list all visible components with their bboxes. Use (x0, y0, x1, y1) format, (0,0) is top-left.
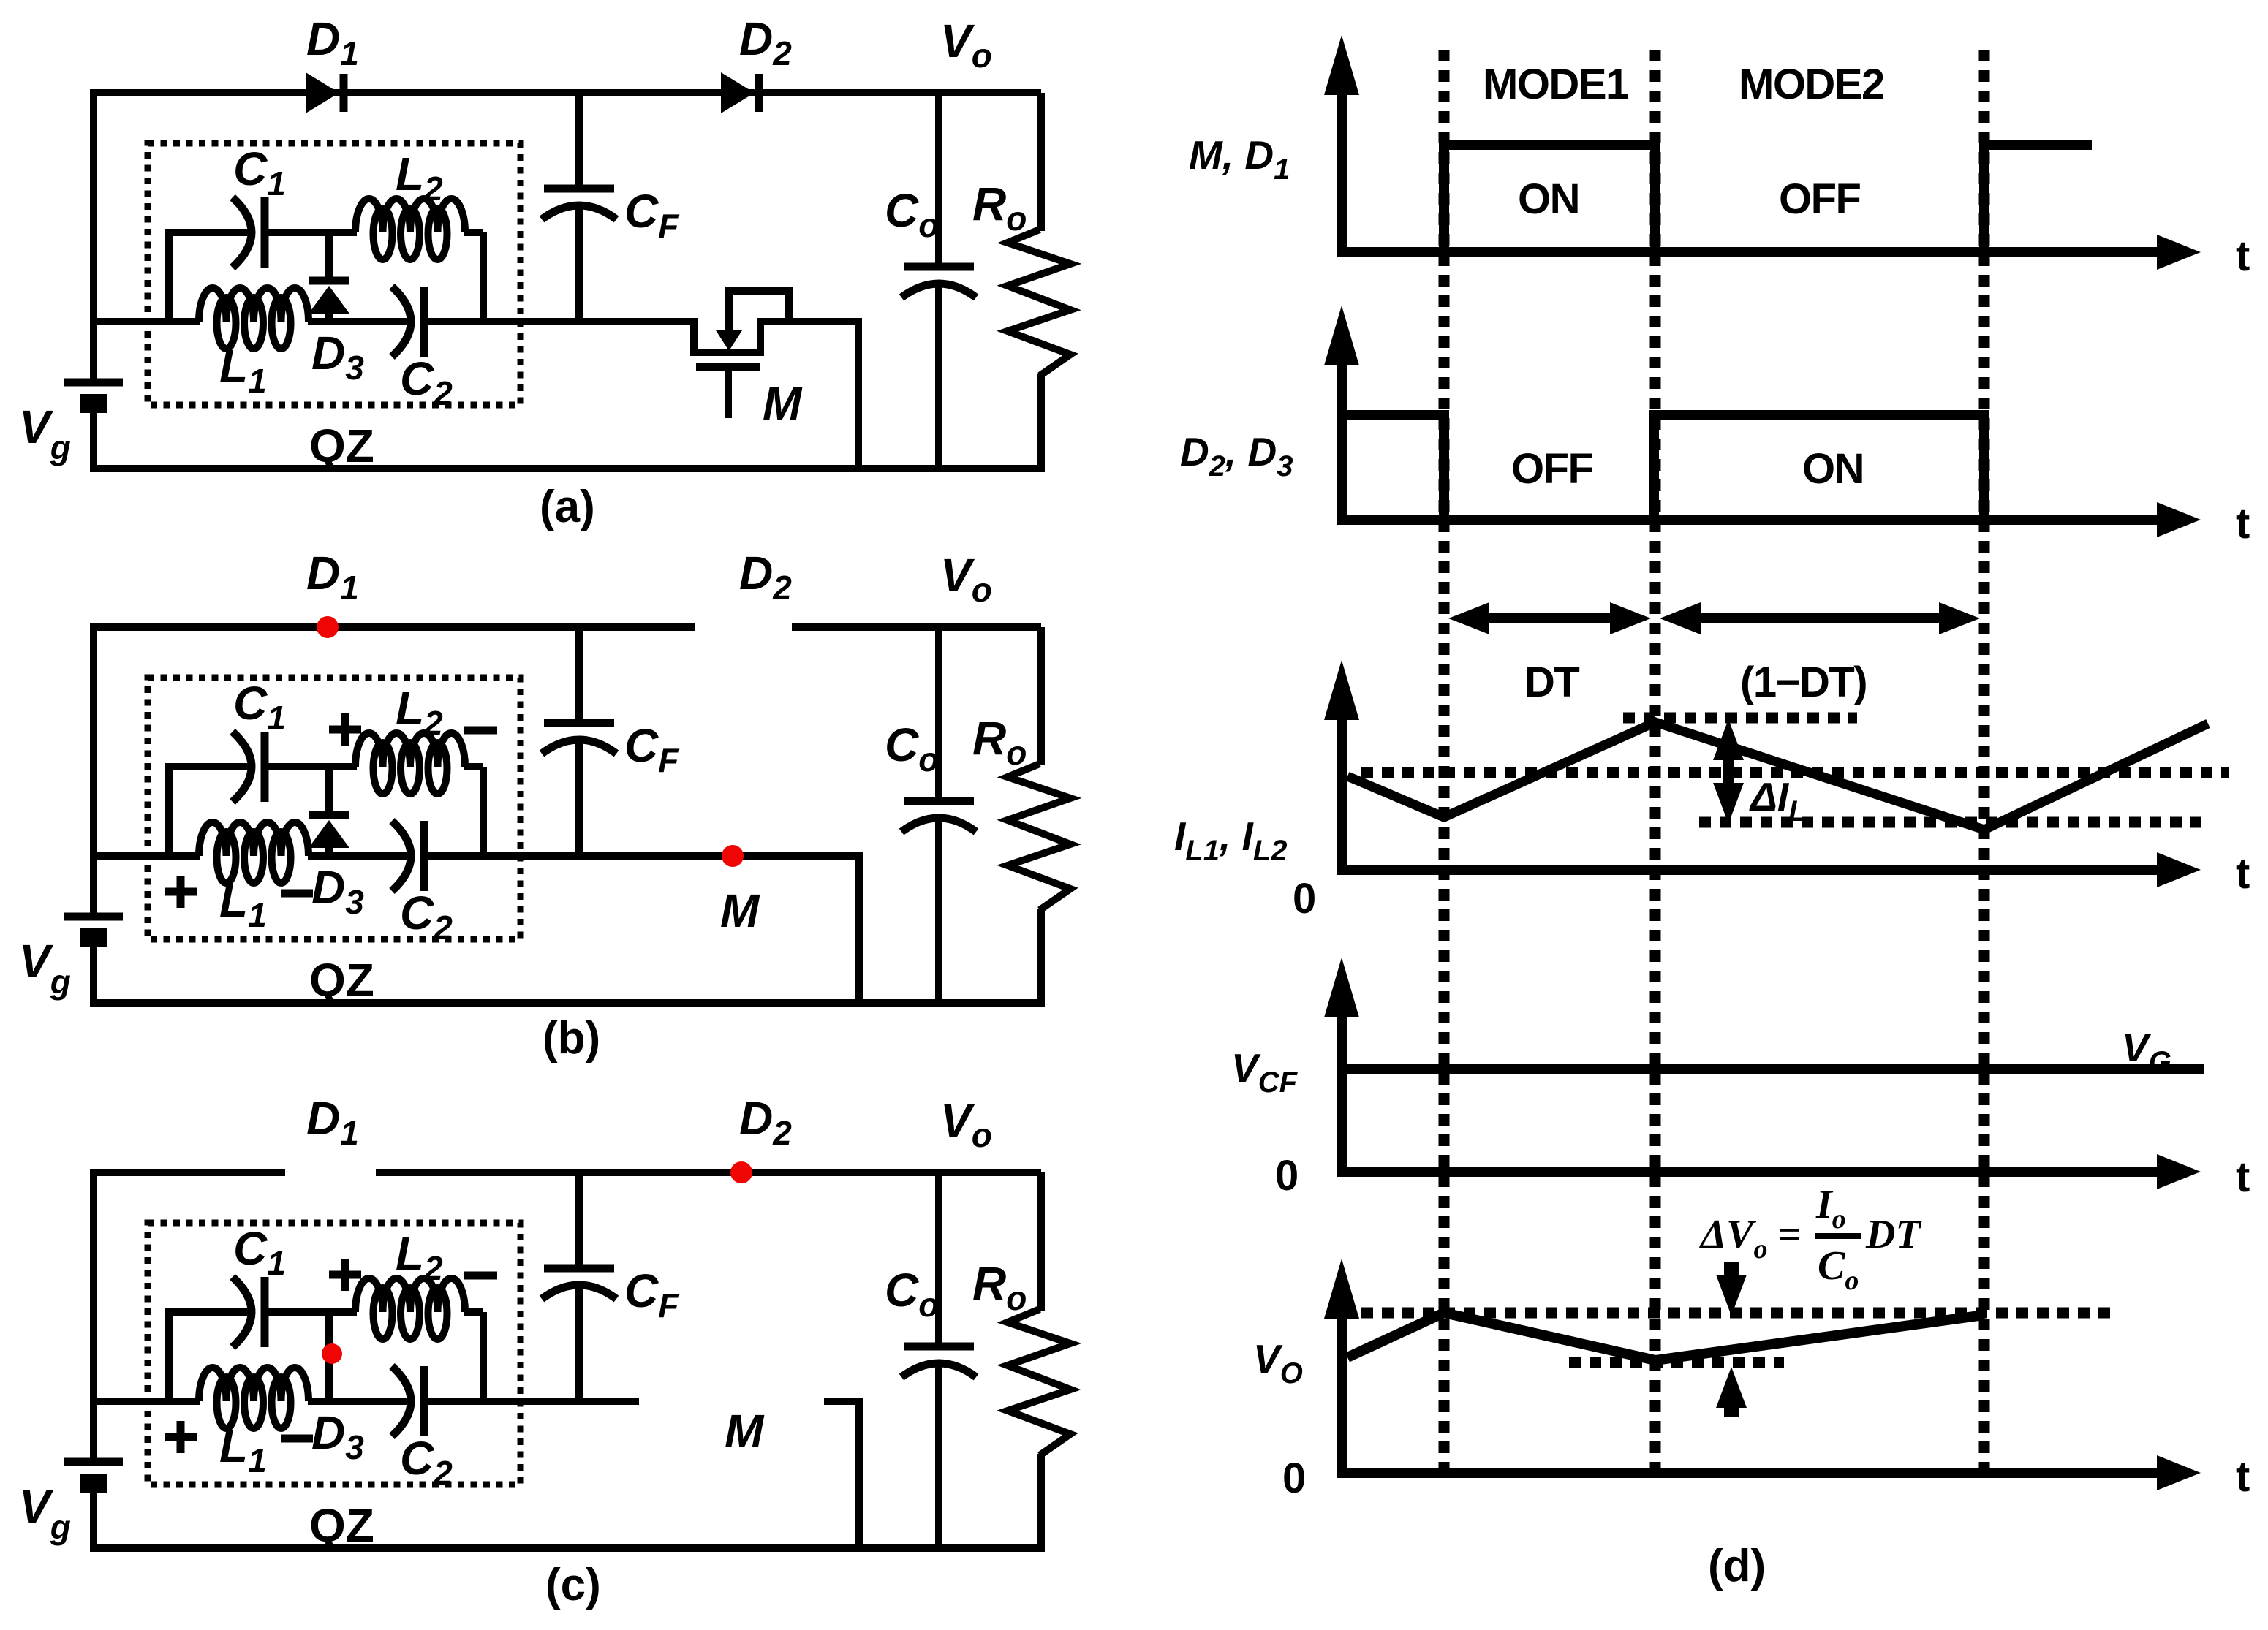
capacitor CF (542, 627, 680, 860)
diode D3 (309, 232, 349, 322)
polarity signs (165, 713, 497, 908)
wire M drain to bottom rail (855, 852, 863, 1003)
node D2 closed (red dot) (730, 1161, 752, 1183)
svg-text:M, D1: M, D1 (1189, 132, 1290, 186)
svg-text:ΔVo =: ΔVo = (1699, 1212, 1801, 1265)
svg-text:Vo: Vo (940, 15, 992, 75)
polarity signs (165, 1259, 497, 1453)
transistor M gate arrow (716, 330, 742, 351)
dotted level IL min (1699, 817, 2201, 828)
capacitor Co + resistor Ro (885, 1172, 1070, 1548)
svg-text:t: t (2236, 1153, 2250, 1201)
svg-text:D2: D2 (739, 12, 792, 72)
svg-text:OFF: OFF (1779, 175, 1861, 223)
svg-text:0: 0 (1293, 875, 1315, 922)
interval arrow DT (1448, 602, 1651, 706)
svg-text:ON: ON (1802, 445, 1864, 493)
svg-text:ΔIL: ΔIL (1749, 774, 1807, 827)
wire: top rail (a) (94, 89, 1041, 96)
battery Vg + outline (19, 89, 1045, 472)
svg-text:MODE1: MODE1 (1483, 61, 1628, 108)
wire: D3 closed branch (325, 1312, 333, 1401)
wire: top rail (c) right segment (376, 1169, 1041, 1176)
wire M branch closed (635, 852, 859, 860)
panel D2,D3 axes (1180, 306, 2250, 547)
panel VO axes (1253, 1259, 2250, 1502)
capacitor Co + resistor Ro (885, 93, 1070, 469)
svg-text:M: M (763, 377, 803, 430)
svg-text:OFF: OFF (1511, 445, 1593, 493)
panel M,D1 axes (1189, 35, 2250, 280)
svg-text:IL1, IL2: IL1, IL2 (1174, 814, 1288, 867)
waveform VO ripple (1347, 1313, 1984, 1360)
svg-text:M: M (720, 884, 760, 937)
wire: top rail (c) left segment (94, 1169, 285, 1176)
wire M drain to bottom rail (855, 318, 862, 469)
node D3 closed (red dot) (322, 1343, 342, 1364)
diode D1 (306, 72, 344, 113)
ripple formula dVo (1699, 1182, 1922, 1296)
panel IL1,IL2 axes (1174, 660, 2250, 922)
svg-text:D1: D1 (306, 12, 359, 72)
svg-text:VO: VO (1253, 1336, 1303, 1390)
wire: top rail (b) right segment (792, 623, 1041, 631)
waveform D2,D3 pulse2 (1654, 415, 1984, 520)
svg-text:VCF: VCF (1231, 1045, 1299, 1099)
svg-text:D2, D3: D2, D3 (1180, 429, 1293, 482)
svg-text:t: t (2236, 500, 2250, 547)
svg-text:0: 0 (1282, 1455, 1305, 1502)
dashed timeline t1 (1439, 50, 1450, 1471)
svg-text:D1: D1 (306, 1092, 359, 1152)
node D1 closed (red dot) (317, 616, 339, 638)
wire: top rail (b) left segment (94, 623, 695, 631)
annotation arrow up (1716, 1367, 1747, 1417)
svg-text:DT: DT (1865, 1212, 1922, 1257)
wire mid rail to M (635, 318, 694, 325)
dashed timeline t2 (1650, 50, 1661, 1471)
capacitor CF (542, 93, 680, 325)
wire M drain (760, 318, 858, 325)
dotted level IL max (1623, 713, 1857, 724)
waveform M,D1 pulse2 (1984, 145, 2092, 252)
waveform D2,D3 pulse1 (1346, 415, 1444, 520)
transistor M source stub (725, 367, 732, 418)
dotted level IL avg (1361, 767, 2229, 778)
transistor M plate (696, 363, 760, 371)
battery Vg + outline (19, 1169, 1045, 1552)
battery Vg + outline (19, 623, 1045, 1007)
svg-text:Vo: Vo (940, 549, 992, 609)
svg-text:D2: D2 (739, 1092, 792, 1152)
svg-text:(d): (d) (1708, 1541, 1766, 1591)
waveform M,D1 pulse1 (1444, 145, 1655, 252)
waveform VCF flat (1347, 1064, 2204, 1074)
svg-text:ON: ON (1518, 175, 1579, 223)
capacitor Co + resistor Ro (885, 627, 1070, 1003)
dotted level VO min (1569, 1357, 1784, 1368)
svg-text:t: t (2236, 1453, 2250, 1501)
interval arrow (1-DT) (1660, 602, 1980, 706)
QZ network (91, 1222, 639, 1552)
svg-text:Co: Co (1818, 1243, 1859, 1296)
svg-text:0: 0 (1275, 1152, 1298, 1199)
svg-text:Vo: Vo (940, 1094, 992, 1154)
dotted level VO max (1361, 1308, 2113, 1319)
node M closed red dot (722, 845, 744, 867)
transistor M gate loop (729, 291, 789, 338)
capacitor CF (542, 1172, 680, 1405)
svg-text:Io: Io (1815, 1182, 1846, 1235)
wire M open drain stub (824, 1401, 859, 1548)
QZ network (91, 677, 639, 1007)
dashed timeline t3 (1979, 50, 1990, 1471)
svg-text:t: t (2236, 232, 2250, 280)
svg-text:MODE2: MODE2 (1739, 61, 1884, 108)
annotation arrow down (1716, 1262, 1747, 1316)
ripple arrow dIL (1713, 719, 1807, 827)
svg-text:t: t (2236, 850, 2250, 898)
svg-text:D2: D2 (739, 547, 792, 607)
svg-text:(1−DT): (1−DT) (1740, 659, 1867, 706)
waveform IL triangle (1347, 722, 2208, 830)
panel VCF axes (1231, 958, 2250, 1201)
svg-text:(b): (b) (543, 1013, 600, 1064)
svg-text:DT: DT (1524, 659, 1579, 706)
svg-text:D1: D1 (306, 547, 359, 607)
transistor M channel (694, 318, 760, 352)
diode D2 (721, 72, 759, 113)
svg-text:M: M (725, 1405, 765, 1457)
svg-text:(c): (c) (545, 1560, 601, 1610)
diode D3 (309, 767, 349, 856)
svg-text:(a): (a) (540, 482, 595, 532)
QZ network (91, 143, 639, 472)
